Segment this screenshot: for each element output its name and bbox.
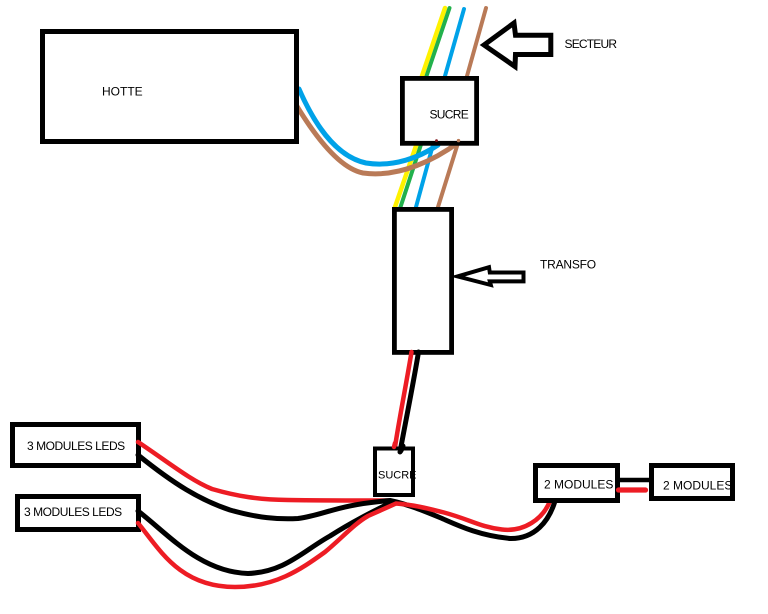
svg-text:2 MODULES: 2 MODULES [544, 478, 613, 492]
red wire tip at bottom sucre top edge [394, 443, 395, 447]
wire: brown curve hotte to sucre [295, 103, 459, 174]
box SUCRE (bottom) [375, 449, 413, 496]
dark red speck at sucre bottom edge [435, 139, 438, 142]
box 3 MODULES LEDS (upper) [13, 425, 139, 466]
wire: neutral blue (secteur, top to transfo) [416, 9, 464, 207]
wire: red lower leds box to junction peak and on to 2 modules [138, 501, 550, 587]
black wire tip inside bottom sucre [400, 446, 403, 452]
svg-text:HOTTE: HOTTE [102, 85, 143, 99]
box TRANSFO [394, 209, 451, 352]
box SUCRE (top) [402, 78, 476, 143]
wire: earth green stripe [401, 8, 450, 207]
black link between 2 modules boxes [619, 478, 650, 483]
box 3 MODULES LEDS (lower) [18, 497, 139, 530]
wire: blue curve hotte to sucre [299, 89, 438, 164]
box HOTTE [43, 32, 297, 142]
wire: black upper leds box to junction and on to 2 modules [138, 455, 555, 539]
wire: black lower leds box to junction [138, 503, 391, 574]
arrow SECTEUR [484, 23, 551, 67]
red link between 2 modules boxes [619, 487, 646, 492]
wire: black transfo into sucre (bottom) [400, 352, 419, 452]
box 2 MODULES (right) [652, 466, 733, 499]
wire: live brown (secteur, top to transfo) [438, 8, 486, 207]
svg-text:3 MODULES LEDS: 3 MODULES LEDS [24, 505, 122, 519]
brown wire nub poking above sucre bottom border [457, 139, 460, 142]
svg-text:SUCRE: SUCRE [430, 108, 469, 122]
svg-text:2 MODULES: 2 MODULES [663, 478, 732, 492]
wire: earth yellow (secteur, top to transfo) [395, 8, 445, 207]
wire: red transfo to sucre (bottom) [395, 352, 412, 447]
wire: red upper leds box to sucre junction [138, 442, 389, 501]
svg-text:3 MODULES LEDS: 3 MODULES LEDS [27, 439, 125, 453]
svg-text:SUCRE: SUCRE [378, 470, 417, 482]
arrow TRANSFO [458, 267, 524, 285]
svg-text:SECTEUR: SECTEUR [565, 37, 618, 51]
box 2 MODULES (left) [536, 466, 618, 501]
svg-text:TRANSFO: TRANSFO [540, 257, 596, 271]
